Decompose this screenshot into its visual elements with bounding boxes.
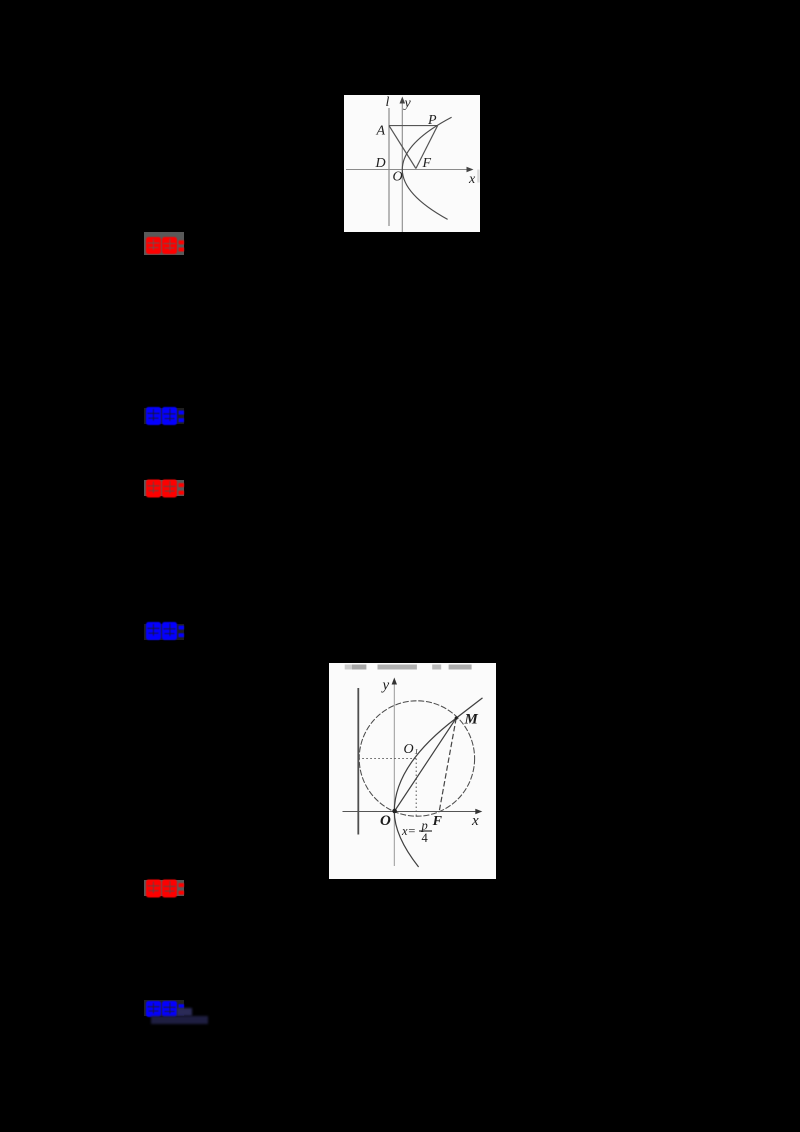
blue badge 1 (答案:) xyxy=(144,408,184,424)
dotted line O1 vertical xyxy=(415,759,417,818)
figure 1: parabola with directrix, white panel xyxy=(344,95,480,232)
svg-text:P: P xyxy=(427,113,437,128)
svg-text:y: y xyxy=(381,678,390,694)
figure 2: circle + parabola, white panel xyxy=(329,663,496,879)
svg-text:l: l xyxy=(386,95,390,110)
blue badge 2 (答案:) xyxy=(144,624,184,640)
chord O-M extended xyxy=(394,698,482,812)
svg-text:x=: x= xyxy=(401,824,416,838)
segment P-F xyxy=(416,126,438,169)
svg-text:D: D xyxy=(375,156,386,171)
svg-text:O: O xyxy=(393,170,403,185)
dotted line O1 horizontal xyxy=(358,758,416,760)
x axis xyxy=(343,811,480,813)
svg-text:A: A xyxy=(376,123,386,138)
red badge 2 (解析:) xyxy=(144,480,184,496)
svg-text:x: x xyxy=(471,813,479,829)
svg-text:4: 4 xyxy=(422,831,429,845)
dashed chord M-F xyxy=(439,718,456,811)
edge smudge xyxy=(477,170,479,183)
y axis xyxy=(393,681,395,866)
blue badge 3 (答案:) xyxy=(144,1000,184,1016)
dot at O xyxy=(392,809,397,814)
svg-text:O: O xyxy=(404,742,414,757)
svg-text:O: O xyxy=(380,813,391,829)
segment A-F xyxy=(389,126,416,169)
parabola O-M xyxy=(394,718,456,867)
dark navy formula highlight (upper) xyxy=(177,1008,192,1016)
dot at M xyxy=(455,717,458,720)
dark navy formula highlight (lower) xyxy=(151,1016,208,1024)
svg-text:x: x xyxy=(468,172,476,187)
svg-text:y: y xyxy=(403,96,412,111)
y axis xyxy=(401,100,403,232)
svg-text:1: 1 xyxy=(415,747,419,756)
parabola xyxy=(402,117,451,219)
red badge 1 (解析:) xyxy=(144,232,184,255)
red badge 3 (解析:) xyxy=(144,880,184,896)
directrix x=-p/4 xyxy=(357,688,359,835)
svg-text:F: F xyxy=(432,814,443,829)
x axis xyxy=(346,169,470,171)
circle through O and F (dashed) xyxy=(359,701,474,816)
segment A-P xyxy=(389,125,438,127)
blurred grey text scraps at top xyxy=(345,665,367,670)
svg-text:M: M xyxy=(464,712,479,728)
svg-text:F: F xyxy=(422,156,432,171)
directrix l xyxy=(388,108,390,226)
